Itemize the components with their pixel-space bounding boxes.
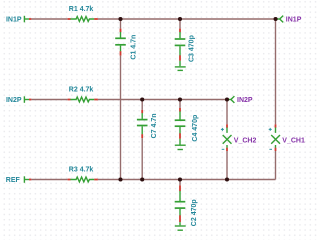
ground below C2 (175, 222, 186, 230)
svg-text:IN2P: IN2P (6, 97, 22, 104)
wire V3 bottom top (179, 180, 181, 186)
wire V2 upper (141, 100, 143, 110)
resistor R3 (68, 166, 98, 182)
svg-text:R1 4.7k: R1 4.7k (69, 6, 94, 13)
wire V4 upper (226, 100, 228, 125)
resistor R1 (68, 6, 98, 22)
wire row3 right (98, 179, 276, 181)
wire row1 left (31, 18, 67, 20)
wire row2 right (98, 99, 227, 101)
svg-text:V_CH2: V_CH2 (234, 137, 257, 144)
port IN2P (6, 96, 31, 104)
wire V1 lower (120, 56, 122, 180)
svg-text:C1 4.7n: C1 4.7n (130, 35, 137, 60)
ground below C4 (175, 139, 186, 150)
junction node row3-V2 (140, 177, 144, 181)
output tap IN2P (228, 96, 253, 104)
port IN1P (6, 16, 31, 24)
junction node row3-V_CH2 (225, 177, 229, 181)
capacitor C2 (175, 185, 198, 226)
wire row3 left (31, 179, 67, 181)
junction node row1-C1 (118, 17, 122, 21)
junction node row3-C2 (178, 177, 182, 181)
wire row2 left (31, 99, 67, 101)
svg-text:C2 470p: C2 470p (191, 199, 198, 226)
capacitor C3 (175, 29, 196, 62)
ground below C3 (175, 61, 186, 71)
junction node row2-V_CH2 tap (225, 97, 229, 101)
svg-text:C3 470p: C3 470p (188, 35, 195, 62)
wire V1 upper (120, 19, 122, 29)
resistor R2 (68, 86, 98, 102)
svg-text:R3 4.7k: R3 4.7k (69, 166, 94, 173)
junction node row1-V_CH1 tap (274, 17, 278, 21)
svg-text:V_CH1: V_CH1 (282, 137, 305, 144)
port REF (6, 176, 32, 184)
wire V5 upper (275, 19, 277, 124)
capacitor C7 (137, 110, 158, 138)
svg-text:IN2P: IN2P (237, 97, 253, 104)
junction node row2-C4 (178, 97, 182, 101)
wire V5 lower (275, 151, 277, 180)
junction node row1-C3 (178, 17, 182, 21)
wire V2 lower (141, 138, 143, 179)
junction node row3-V1 (118, 177, 122, 181)
wire V3 mid top (179, 100, 181, 109)
voltmeter V_CH2 (221, 124, 257, 151)
svg-text:IN1P: IN1P (6, 16, 22, 23)
capacitor C1 (115, 29, 137, 60)
svg-text:R2 4.7k: R2 4.7k (69, 86, 94, 93)
wire V4 lower (226, 151, 228, 180)
junction node row2-C7 (140, 97, 144, 101)
svg-text:IN1P: IN1P (286, 17, 302, 24)
svg-text:REF: REF (6, 177, 21, 184)
voltmeter V_CH1 (269, 124, 305, 151)
capacitor C4 (175, 108, 199, 142)
wire V3 top (179, 19, 181, 29)
wire row1 right (98, 18, 276, 20)
svg-text:C4 470p: C4 470p (192, 115, 199, 142)
output tap IN1P (277, 16, 302, 24)
svg-text:C7 4.7n: C7 4.7n (151, 113, 158, 138)
